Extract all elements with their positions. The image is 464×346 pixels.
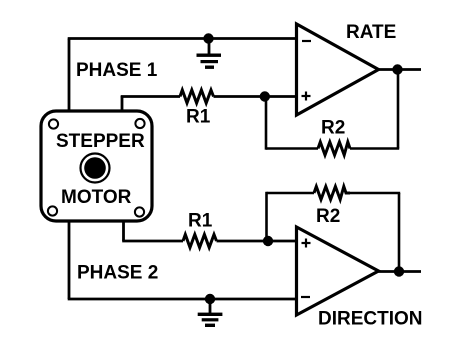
wire phase1 / op-amp U1 inverting input xyxy=(68,37,297,40)
wire U1 feedback bottom (left part) xyxy=(266,147,318,150)
svg-text:R1: R1 xyxy=(188,211,213,232)
wire R1 to op-amp U1 non-inverting input xyxy=(214,95,298,98)
junction: U2 non-inverting input node xyxy=(263,236,273,246)
wire U2 feedback top (right part) xyxy=(350,192,400,195)
svg-text:R2: R2 xyxy=(321,118,345,139)
svg-text:MOTOR: MOTOR xyxy=(61,187,132,208)
resistor R1 (phase 2) xyxy=(183,235,217,248)
resistor R2 (U1 feedback) xyxy=(318,142,350,155)
wire phase1 vertical from motor top xyxy=(68,39,71,113)
svg-text:RATE: RATE xyxy=(346,22,396,43)
wire U1 feedback vertical right xyxy=(397,70,400,149)
op-amp U2 (DIRECTION) xyxy=(297,227,379,315)
wire U2 feedback top (left part) xyxy=(267,192,315,195)
ground (bottom) xyxy=(198,299,223,327)
ground (top) xyxy=(197,39,222,69)
wire U1 feedback bottom (right part) xyxy=(350,147,399,150)
wire op-amp U1 output xyxy=(379,68,422,71)
junction: bottom ground node xyxy=(205,294,215,304)
wire U1 feedback vertical left xyxy=(265,97,268,150)
stepper motor M1 xyxy=(41,111,152,221)
junction: U2 output node xyxy=(394,266,404,276)
wire to resistor R1 (phase 2) xyxy=(122,240,183,243)
junction: top ground node xyxy=(203,33,213,43)
junction: U1 output node xyxy=(392,64,402,74)
wire U2 feedback vertical right xyxy=(398,193,401,272)
wire R1 to op-amp U2 non-inverting input xyxy=(217,240,298,243)
wire to resistor R1 xyxy=(121,95,180,98)
wire phase2 vertical from motor bottom xyxy=(68,221,71,299)
svg-text:R1: R1 xyxy=(186,107,211,128)
wire motor bottom-right stub down xyxy=(122,221,125,241)
svg-text:R2: R2 xyxy=(316,206,340,227)
op-amp U1 (RATE) xyxy=(297,24,379,115)
wire motor top-right stub up xyxy=(121,96,124,112)
wire op-amp U2 output xyxy=(379,270,422,273)
svg-text:STEPPER: STEPPER xyxy=(56,131,145,152)
svg-text:PHASE 1: PHASE 1 xyxy=(76,60,158,81)
wire phase2 / op-amp U2 inverting input xyxy=(68,298,297,301)
resistor R2 (U2 feedback) xyxy=(314,187,350,200)
wire U2 feedback vertical left xyxy=(265,192,268,241)
svg-text:PHASE 2: PHASE 2 xyxy=(77,263,158,284)
resistor R1 xyxy=(180,90,214,103)
svg-text:DIRECTION: DIRECTION xyxy=(318,309,423,330)
junction: U1 non-inverting input node xyxy=(260,91,270,101)
